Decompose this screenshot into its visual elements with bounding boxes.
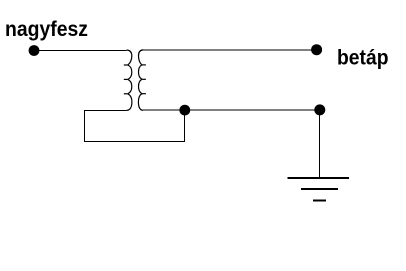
wire to ground: [319, 110, 321, 178]
svg-text:betáp: betáp: [337, 46, 389, 69]
wire top-right: [143, 49, 317, 51]
node betáp terminal: [311, 44, 322, 55]
wire top-left: [34, 50, 127, 52]
transformer T1 primary winding: [124, 50, 132, 110]
wire bottom rail: [143, 109, 320, 111]
wire tap loop: [85, 110, 185, 142]
transformer T1 secondary winding: [138, 50, 146, 110]
svg-text:nagyfesz: nagyfesz: [5, 18, 88, 41]
node ground junction: [314, 104, 325, 115]
ground symbol: [288, 178, 349, 200]
node tap junction: [179, 105, 190, 116]
node nagyfesz terminal: [29, 45, 40, 56]
